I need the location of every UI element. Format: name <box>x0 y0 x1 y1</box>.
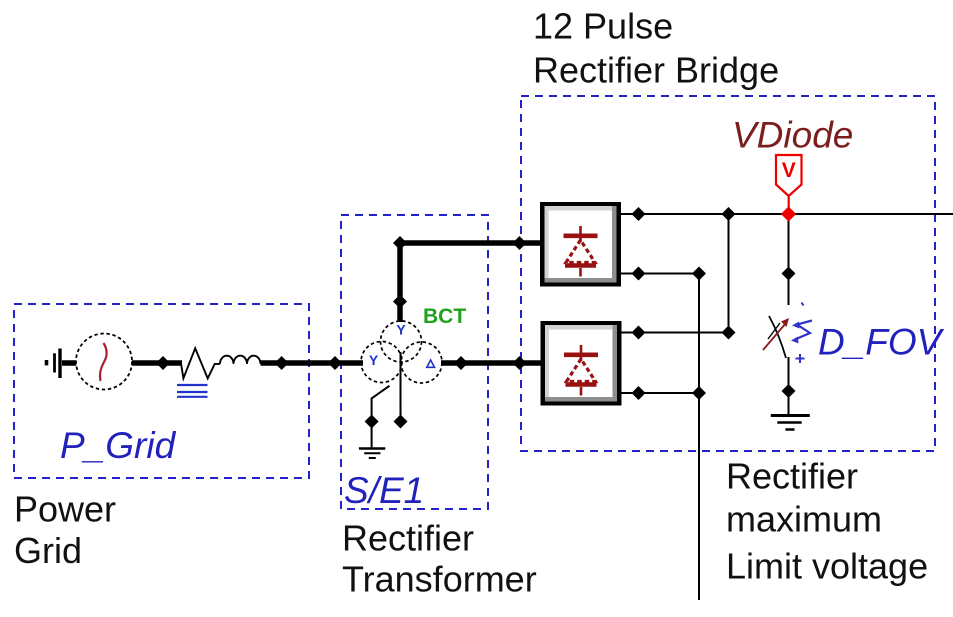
svg-text:12 Pulse: 12 Pulse <box>533 5 673 46</box>
svg-text:Grid: Grid <box>14 530 82 571</box>
svg-text:D_FOV: D_FOV <box>818 321 945 362</box>
svg-text:V: V <box>782 159 796 182</box>
svg-text:S/E1: S/E1 <box>344 470 424 511</box>
svg-text:BCT: BCT <box>423 305 466 328</box>
svg-text:Y: Y <box>369 352 379 368</box>
svg-text:Limit voltage: Limit voltage <box>726 546 928 587</box>
svg-text:Rectifier: Rectifier <box>342 517 474 558</box>
svg-text:maximum: maximum <box>726 499 882 540</box>
svg-text:Y: Y <box>396 322 406 338</box>
svg-text:VDiode: VDiode <box>732 114 853 155</box>
svg-text:P_Grid: P_Grid <box>60 425 177 466</box>
svg-text:Rectifier: Rectifier <box>726 456 858 497</box>
svg-text:Power: Power <box>14 489 116 530</box>
svg-text:Transformer: Transformer <box>342 558 537 599</box>
svg-text:Rectifier Bridge: Rectifier Bridge <box>533 50 779 91</box>
